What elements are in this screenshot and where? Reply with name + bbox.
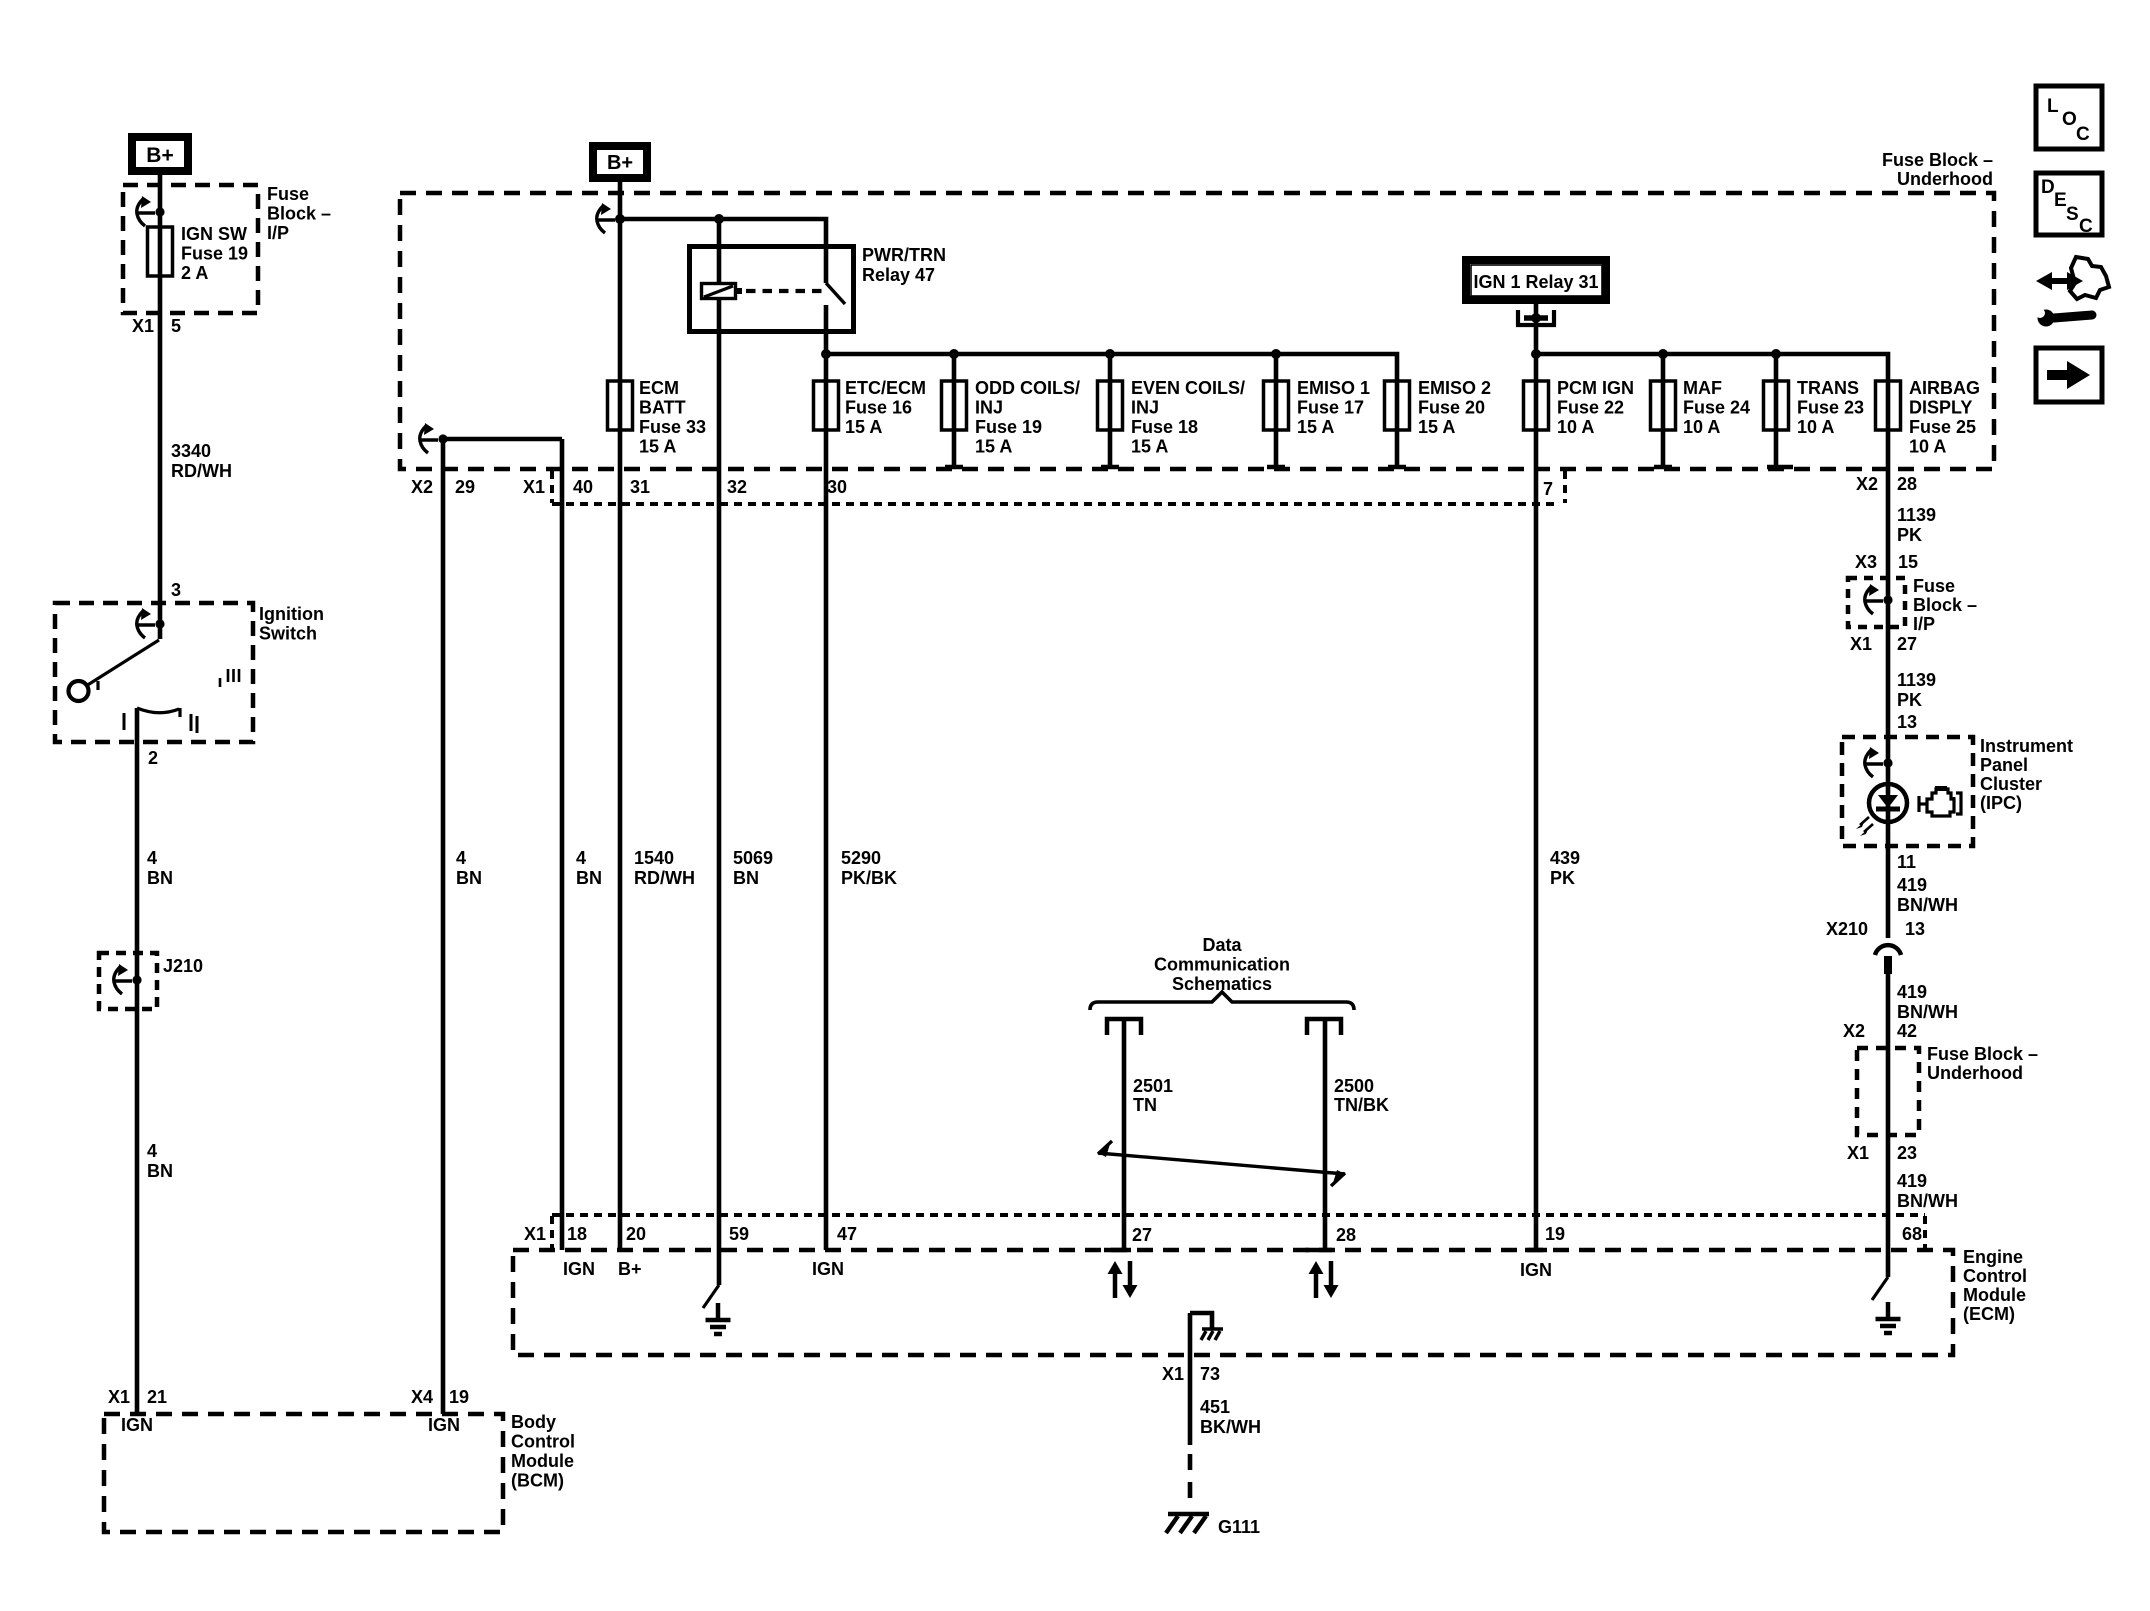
svg-text:IGN: IGN	[1520, 1260, 1552, 1280]
svg-text:BN/WH: BN/WH	[1897, 1191, 1958, 1211]
svg-text:73: 73	[1200, 1364, 1220, 1384]
svg-text:X4: X4	[411, 1387, 433, 1407]
svg-text:BK/WH: BK/WH	[1200, 1417, 1261, 1437]
svg-text:O: O	[2062, 109, 2077, 130]
svg-text:Fuse Block –: Fuse Block –	[1927, 1044, 2038, 1064]
svg-text:X1: X1	[1847, 1143, 1869, 1163]
svg-text:Communication: Communication	[1154, 955, 1290, 975]
svg-text:Engine: Engine	[1963, 1247, 2023, 1267]
svg-text:Block –: Block –	[1913, 595, 1977, 615]
svg-text:Fuse 16: Fuse 16	[845, 398, 912, 418]
svg-text:Fuse 18: Fuse 18	[1131, 417, 1198, 437]
svg-text:451: 451	[1200, 1397, 1230, 1417]
svg-text:G111: G111	[1218, 1517, 1260, 1537]
svg-text:BN: BN	[576, 868, 602, 888]
svg-text:(IPC): (IPC)	[1980, 793, 2022, 813]
svg-text:BN/WH: BN/WH	[1897, 895, 1958, 915]
svg-text:EVEN COILS/: EVEN COILS/	[1131, 378, 1245, 398]
svg-text:27: 27	[1132, 1225, 1152, 1245]
svg-text:PK/BK: PK/BK	[841, 868, 897, 888]
svg-text:29: 29	[455, 477, 475, 497]
svg-text:X1: X1	[108, 1387, 130, 1407]
svg-text:PWR/TRN: PWR/TRN	[862, 245, 946, 265]
svg-text:X1: X1	[1850, 634, 1872, 654]
svg-text:Ignition: Ignition	[259, 604, 324, 624]
svg-text:11: 11	[1897, 852, 1916, 872]
svg-text:BN: BN	[456, 868, 482, 888]
svg-text:10 A: 10 A	[1909, 437, 1946, 457]
svg-text:2: 2	[148, 748, 158, 768]
svg-text:IGN: IGN	[563, 1259, 595, 1279]
svg-text:10 A: 10 A	[1797, 417, 1834, 437]
svg-text:4: 4	[147, 848, 157, 868]
svg-text:BN: BN	[733, 868, 759, 888]
svg-text:18: 18	[567, 1224, 587, 1244]
svg-text:TN: TN	[1133, 1095, 1157, 1115]
svg-text:TN/BK: TN/BK	[1334, 1095, 1389, 1115]
svg-text:Fuse: Fuse	[1913, 576, 1955, 596]
svg-text:X1: X1	[132, 316, 154, 336]
svg-text:21: 21	[147, 1387, 167, 1407]
svg-text:Fuse: Fuse	[267, 184, 309, 204]
svg-text:RD/WH: RD/WH	[171, 461, 232, 481]
svg-text:Fuse 22: Fuse 22	[1557, 398, 1624, 418]
svg-text:5069: 5069	[733, 848, 773, 868]
svg-text:Fuse Block –: Fuse Block –	[1882, 150, 1993, 170]
svg-text:IGN: IGN	[121, 1415, 153, 1435]
svg-text:EMISO 2: EMISO 2	[1418, 378, 1491, 398]
svg-text:4: 4	[456, 848, 466, 868]
svg-text:2 A: 2 A	[181, 263, 208, 283]
svg-text:4: 4	[147, 1141, 157, 1161]
svg-text:15 A: 15 A	[1131, 437, 1168, 457]
svg-text:28: 28	[1336, 1225, 1356, 1245]
svg-text:1139: 1139	[1897, 670, 1936, 690]
svg-text:IGN: IGN	[812, 1259, 844, 1279]
svg-text:1540: 1540	[634, 848, 674, 868]
svg-text:Fuse 19: Fuse 19	[975, 417, 1042, 437]
svg-text:Panel: Panel	[1980, 755, 2028, 775]
svg-text:439: 439	[1550, 848, 1580, 868]
svg-text:19: 19	[449, 1387, 469, 1407]
svg-text:47: 47	[837, 1224, 857, 1244]
svg-text:Fuse 33: Fuse 33	[639, 417, 706, 437]
svg-text:IGN: IGN	[428, 1415, 460, 1435]
svg-text:Module: Module	[1963, 1285, 2026, 1305]
svg-text:TRANS: TRANS	[1797, 378, 1859, 398]
svg-text:Control: Control	[511, 1432, 575, 1452]
svg-text:ETC/ECM: ETC/ECM	[845, 378, 926, 398]
svg-text:Switch: Switch	[259, 624, 317, 644]
svg-text:Underhood: Underhood	[1897, 169, 1993, 189]
svg-text:RD/WH: RD/WH	[634, 868, 695, 888]
svg-text:5: 5	[171, 316, 181, 336]
svg-text:DISPLY: DISPLY	[1909, 398, 1972, 418]
svg-text:Schematics: Schematics	[1172, 974, 1272, 994]
svg-text:EMISO 1: EMISO 1	[1297, 378, 1370, 398]
svg-text:BN: BN	[147, 868, 173, 888]
svg-text:X2: X2	[411, 477, 433, 497]
svg-text:15 A: 15 A	[1418, 417, 1455, 437]
svg-text:ODD COILS/: ODD COILS/	[975, 378, 1080, 398]
svg-text:Block –: Block –	[267, 204, 331, 224]
svg-text:B+: B+	[146, 144, 173, 167]
svg-text:419: 419	[1897, 982, 1927, 1002]
svg-text:Control: Control	[1963, 1266, 2027, 1286]
svg-text:Fuse 20: Fuse 20	[1418, 398, 1485, 418]
svg-text:IGN 1 Relay 31: IGN 1 Relay 31	[1473, 272, 1598, 292]
svg-text:L: L	[2047, 96, 2059, 117]
svg-text:X3: X3	[1855, 552, 1877, 572]
svg-text:4: 4	[576, 848, 586, 868]
svg-text:68: 68	[1902, 1224, 1922, 1244]
svg-text:PK: PK	[1897, 525, 1922, 545]
svg-text:B+: B+	[618, 1259, 642, 1279]
svg-text:7: 7	[1543, 479, 1553, 499]
svg-text:13: 13	[1905, 919, 1925, 939]
svg-text:13: 13	[1897, 712, 1917, 732]
svg-text:27: 27	[1897, 634, 1917, 654]
svg-text:32: 32	[727, 477, 747, 497]
svg-text:1139: 1139	[1897, 505, 1936, 525]
svg-text:Data: Data	[1202, 935, 1242, 955]
svg-text:PK: PK	[1897, 690, 1922, 710]
svg-text:42: 42	[1897, 1021, 1917, 1041]
svg-text:Underhood: Underhood	[1927, 1063, 2023, 1083]
svg-text:23: 23	[1897, 1143, 1917, 1163]
svg-text:40: 40	[573, 477, 593, 497]
svg-text:Relay 47: Relay 47	[862, 265, 935, 285]
svg-text:(ECM): (ECM)	[1963, 1304, 2015, 1324]
svg-text:BN/WH: BN/WH	[1897, 1002, 1958, 1022]
svg-text:C: C	[2079, 216, 2093, 237]
svg-text:J210: J210	[163, 956, 203, 976]
svg-text:Module: Module	[511, 1451, 574, 1471]
svg-text:(BCM): (BCM)	[511, 1471, 564, 1491]
svg-text:Fuse 17: Fuse 17	[1297, 398, 1364, 418]
svg-text:D: D	[2041, 177, 2055, 198]
svg-text:15 A: 15 A	[639, 437, 676, 457]
svg-text:I/P: I/P	[267, 223, 289, 243]
svg-text:10 A: 10 A	[1557, 417, 1594, 437]
svg-text:10 A: 10 A	[1683, 417, 1720, 437]
svg-text:X2: X2	[1856, 474, 1878, 494]
svg-text:3340: 3340	[171, 441, 211, 461]
svg-text:B+: B+	[607, 152, 633, 174]
svg-text:30: 30	[827, 477, 847, 497]
svg-text:419: 419	[1897, 875, 1927, 895]
svg-text:Body: Body	[511, 1412, 556, 1432]
svg-text:INJ: INJ	[975, 398, 1003, 418]
svg-text:Fuse 25: Fuse 25	[1909, 417, 1976, 437]
svg-text:ECM: ECM	[639, 378, 679, 398]
svg-text:15 A: 15 A	[975, 437, 1012, 457]
svg-text:Cluster: Cluster	[1980, 774, 2042, 794]
svg-text:X1: X1	[523, 477, 545, 497]
svg-text:15: 15	[1898, 552, 1918, 572]
svg-text:X1: X1	[524, 1224, 546, 1244]
svg-text:Fuse 23: Fuse 23	[1797, 398, 1864, 418]
svg-text:E: E	[2054, 190, 2067, 211]
svg-text:2501: 2501	[1133, 1076, 1173, 1096]
svg-text:S: S	[2066, 204, 2079, 225]
svg-text:X1: X1	[1162, 1364, 1184, 1384]
svg-text:15 A: 15 A	[1297, 417, 1334, 437]
svg-text:28: 28	[1897, 474, 1917, 494]
svg-text:Fuse 19: Fuse 19	[181, 244, 248, 264]
svg-text:I/P: I/P	[1913, 614, 1935, 634]
svg-text:15 A: 15 A	[845, 417, 882, 437]
svg-text:MAF: MAF	[1683, 378, 1722, 398]
svg-text:20: 20	[626, 1224, 646, 1244]
svg-text:BN: BN	[147, 1161, 173, 1181]
svg-text:IGN SW: IGN SW	[181, 224, 247, 244]
svg-text:5290: 5290	[841, 848, 881, 868]
svg-text:2500: 2500	[1334, 1076, 1374, 1096]
svg-text:419: 419	[1897, 1171, 1927, 1191]
svg-text:PK: PK	[1550, 868, 1575, 888]
svg-text:Fuse 24: Fuse 24	[1683, 398, 1750, 418]
svg-text:Instrument: Instrument	[1980, 736, 2073, 756]
svg-text:AIRBAG: AIRBAG	[1909, 378, 1980, 398]
svg-text:X2: X2	[1843, 1021, 1865, 1041]
svg-text:59: 59	[729, 1224, 749, 1244]
svg-text:31: 31	[630, 477, 650, 497]
svg-text:19: 19	[1545, 1224, 1565, 1244]
svg-text:3: 3	[171, 580, 181, 600]
svg-text:BATT: BATT	[639, 398, 686, 418]
svg-text:X210: X210	[1826, 919, 1868, 939]
svg-text:INJ: INJ	[1131, 398, 1159, 418]
svg-text:PCM IGN: PCM IGN	[1557, 378, 1634, 398]
svg-text:C: C	[2076, 124, 2090, 145]
